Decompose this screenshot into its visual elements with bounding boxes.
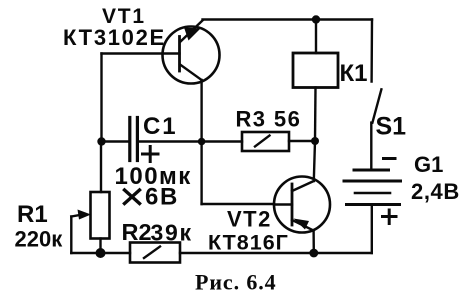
transistor VT1 (163, 21, 220, 84)
svg-text:Рис. 6.4: Рис. 6.4 (195, 270, 277, 294)
label x 6V (125, 190, 140, 204)
wire VT1 collector to VT2 base (202, 203, 274, 205)
svg-text:С1: С1 (143, 113, 177, 140)
battery G1 (344, 159, 401, 254)
potentiometer R1 (71, 192, 109, 253)
relay K1 (293, 53, 338, 88)
wire bottom rail left (71, 252, 130, 254)
wire K1 bottom lead (314, 88, 317, 142)
node top junction (312, 15, 320, 23)
wire K1 top lead (315, 20, 317, 54)
node bottom left junction (96, 248, 106, 258)
wire VT2 emitter down (312, 231, 315, 254)
svg-text:2,4В: 2,4В (411, 179, 460, 204)
wire bottom rail right (180, 252, 372, 254)
wire junction to pot top (100, 142, 102, 193)
capacitor C1 (102, 118, 243, 161)
svg-text:КТ3102Е: КТ3102Е (63, 25, 166, 50)
node C1 left junction (97, 137, 105, 145)
wire top rail (203, 18, 373, 20)
svg-text:6В: 6В (145, 184, 179, 211)
wire VT1 collector down (200, 80, 202, 204)
wire mid vertical to VT2 collector (314, 141, 315, 181)
svg-text:S1: S1 (376, 113, 407, 141)
svg-text:220к: 220к (15, 227, 64, 252)
svg-text:39к: 39к (151, 220, 193, 246)
resistor R3 (242, 132, 315, 151)
svg-text:R1: R1 (17, 201, 48, 228)
node C1-R3 junction (198, 138, 206, 146)
wire VT1 base horizontal (102, 52, 180, 54)
node bottom right junction (309, 249, 318, 258)
svg-text:КТ816Г: КТ816Г (208, 231, 289, 255)
svg-text:R3 56: R3 56 (236, 107, 302, 132)
svg-text:К1: К1 (340, 60, 368, 87)
resistor R2 (130, 243, 180, 263)
switch S1 (371, 20, 381, 170)
transistor VT2 (274, 177, 330, 233)
node mid junction (311, 137, 319, 145)
svg-text:VT2: VT2 (227, 207, 272, 232)
svg-text:R2: R2 (122, 219, 152, 245)
label C1 plus (143, 147, 159, 162)
svg-text:G1: G1 (414, 152, 443, 177)
wire VT1 base vertical (100, 54, 102, 142)
